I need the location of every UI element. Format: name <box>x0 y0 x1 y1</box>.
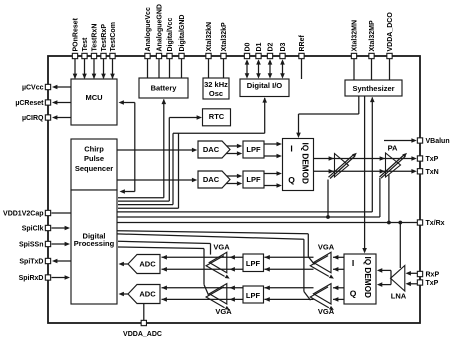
wire LNA output to IQ demodulator (lower) <box>382 284 392 286</box>
wire IQ demodulator Q output to right VGA (upper) <box>333 287 344 289</box>
svg-text:DigitalVcc: DigitalVcc <box>167 18 174 52</box>
pin DigitalGND (top) <box>179 53 184 58</box>
bus line to right VGA row2 control <box>117 234 304 239</box>
wire LPF to IQ modulator Q inputs <box>264 173 277 175</box>
svg-text:LPF: LPF <box>246 175 261 184</box>
wire data pin x=282.5 to Digital I/O (bidirectional) <box>282 61 284 75</box>
svg-text:D0: D0 <box>245 42 252 51</box>
svg-text:Processing: Processing <box>74 239 115 248</box>
svg-text:LPF: LPF <box>246 145 261 154</box>
wire RX row1 upper: right VGA to LPF <box>264 256 313 258</box>
wire pin x=371.5 to Synthesizer <box>371 59 373 80</box>
svg-text:RRef: RRef <box>299 34 306 51</box>
block 32 kHz Osc <box>203 78 229 99</box>
pin D1 (top) <box>256 53 261 58</box>
svg-text:RxP: RxP <box>426 272 440 279</box>
wire TxP pin to LNA <box>410 283 418 285</box>
pin Xtal32kN (top) <box>206 53 211 58</box>
wire VDD1V2Cap to Digital Processing <box>52 212 72 214</box>
svg-text:VDD1V2Cap: VDD1V2Cap <box>3 211 43 218</box>
svg-text:TestRxP: TestRxP <box>101 24 108 52</box>
wire Digital Processing to RTC <box>118 200 169 202</box>
wire supply pin x=159 to Battery <box>158 59 160 78</box>
pin POnReset (top) <box>72 53 77 58</box>
block TX LPF I <box>243 141 264 158</box>
wire DAC Q to LPF (differential pair) <box>226 175 238 177</box>
svg-text:Xtal32MP: Xtal32MP <box>369 20 376 51</box>
pin VDDA_ADC (bottom) <box>141 320 146 325</box>
wire LNA output to IQ demodulator (upper) <box>382 269 392 271</box>
bus line to right VGA row1 control <box>117 231 308 234</box>
pin VBalun (right) <box>417 138 422 143</box>
pin D2 (top) <box>267 53 272 58</box>
wire IQ demodulator I output to right VGA (lower) <box>333 268 344 270</box>
svg-text:Sequencer: Sequencer <box>75 164 113 173</box>
wire VGA gain control to left VGA row1 <box>118 241 211 243</box>
svg-text:TestCom: TestCom <box>110 22 117 51</box>
svg-text:LPF: LPF <box>246 291 261 300</box>
junction dot TX VGA control <box>326 215 330 219</box>
block IQ demodulator U-RX <box>344 254 376 304</box>
wire Synthesizer to IQ demodulator <box>364 96 366 249</box>
block ADC I (pentagon) <box>128 255 160 274</box>
svg-text:AnalogueGND: AnalogueGND <box>157 4 164 51</box>
wire RRef stub <box>301 59 303 79</box>
block Chirp Pulse Sequencer <box>71 139 117 190</box>
wire MCU to Digital Processing (bidirectional link) <box>134 103 136 192</box>
wire top test pin x=94 to MCU <box>93 59 95 78</box>
svg-text:VGA: VGA <box>215 307 232 316</box>
block DAC Q (pentagon) <box>198 171 230 188</box>
block RTC <box>203 109 231 126</box>
wire data pin x=247 to Digital I/O (bidirectional) <box>246 61 248 75</box>
wire Digital Processing bus hook 4 <box>118 207 179 209</box>
svg-text:µCIRQ: µCIRQ <box>22 115 44 122</box>
svg-text:Test: Test <box>82 37 89 52</box>
wire IQ demodulator Q output to right VGA (lower) <box>333 298 344 300</box>
svg-text:I: I <box>352 258 354 268</box>
wire DAC I to LPF (differential pair) <box>226 145 238 147</box>
svg-text:VBalun: VBalun <box>426 138 450 145</box>
wire RX row2 lower: right VGA to LPF <box>264 298 313 300</box>
block Synthesizer <box>345 80 402 96</box>
wire VGA gain control to left VGA row2 <box>118 247 204 249</box>
wire Digital Processing to Digital I/O <box>173 132 265 134</box>
wire MCU to left pin y=87 <box>57 86 71 88</box>
pin µCIRQ (left) <box>45 115 50 120</box>
wire RX row2 lower: VGA to ADC / LPF to VGA <box>162 298 244 300</box>
pin Xtal32kP (top) <box>221 53 226 58</box>
pin D0 (top) <box>244 53 249 58</box>
pin Xtal32MN (top) <box>351 53 356 58</box>
wire RX row1 upper: VGA to ADC / LPF to VGA <box>162 256 244 258</box>
pin Xtal32MP (top) <box>369 53 374 58</box>
pin DigitalVcc (top) <box>167 53 172 58</box>
pin SpiTxD (left) <box>45 258 50 263</box>
pin TxP (right) <box>417 280 422 285</box>
wire xtal32k pin x=208.5 to Osc <box>208 59 210 78</box>
svg-text:SpiTxD: SpiTxD <box>19 259 43 266</box>
pin TxN (right) <box>417 169 422 174</box>
svg-text:Synthesizer: Synthesizer <box>352 84 394 93</box>
wire PA diagonal to Tx/Rx junction <box>388 175 390 223</box>
svg-text:Q: Q <box>350 289 357 299</box>
svg-text:PA: PA <box>388 143 398 152</box>
wire Digital Processing to Battery <box>118 197 164 199</box>
wire IQ modulator output to TX VGA, PA and TxP pin <box>314 158 412 160</box>
svg-text:32 kHz: 32 kHz <box>204 80 228 89</box>
svg-text:LPF: LPF <box>246 259 261 268</box>
pin TestRxP (top) <box>101 53 106 58</box>
block MCU <box>71 79 117 125</box>
block Digital Processing <box>71 190 117 304</box>
wire Tx/Rx junction down to LNA <box>399 223 401 269</box>
bus line to PA gain control <box>117 216 380 218</box>
amplifier TX VGA (triangle with gain arrow) <box>335 154 349 178</box>
wire MCU to left pin y=102.5 <box>57 102 71 104</box>
wire top test pin x=112.5 to MCU <box>112 59 114 78</box>
junction dot on Tx/Rx line B <box>398 221 402 225</box>
svg-text:D1: D1 <box>256 42 263 51</box>
svg-text:VDDA_DCO: VDDA_DCO <box>387 12 394 52</box>
svg-text:SpiSSn: SpiSSn <box>19 242 44 249</box>
svg-text:DigitalGND: DigitalGND <box>179 15 186 52</box>
svg-text:SpiRxD: SpiRxD <box>19 275 44 282</box>
junction dot on Tx/Rx line A <box>387 221 391 225</box>
svg-text:D2: D2 <box>268 42 275 51</box>
svg-text:SpiClk: SpiClk <box>22 226 44 233</box>
svg-text:ADC: ADC <box>139 260 156 269</box>
block Digital I/O <box>240 79 289 97</box>
svg-text:Chirp: Chirp <box>84 144 104 153</box>
pin SpiRxD (left) <box>45 275 50 280</box>
svg-text:VDDA_ADC: VDDA_ADC <box>123 331 162 338</box>
svg-text:D3: D3 <box>280 42 287 51</box>
wire RxP pin to LNA <box>410 272 418 274</box>
pin µCReset (left) <box>45 100 50 105</box>
wire pin x=389.5 to Synthesizer <box>389 59 391 80</box>
svg-text:TxN: TxN <box>426 169 439 176</box>
svg-text:ADC: ADC <box>139 290 156 299</box>
svg-text:VGA: VGA <box>318 307 335 316</box>
wire top test pin x=103.5 to MCU <box>103 59 105 78</box>
wire top test pin x=84.5 to MCU <box>84 59 86 78</box>
bus line to Synthesizer <box>117 211 372 213</box>
pin D3 (top) <box>280 53 285 58</box>
svg-text:µCVcc: µCVcc <box>22 85 44 92</box>
wire xtal32k pin x=223.5 to Osc <box>223 59 225 78</box>
wire LNA tip connector <box>390 270 392 284</box>
wire MCU to left pin y=117.5 <box>57 117 71 119</box>
pin SpiClk (left) <box>45 225 50 230</box>
pin RxP (right) <box>417 271 422 276</box>
wire pin x=354 to Synthesizer <box>353 59 355 80</box>
svg-text:TestRxN: TestRxN <box>92 24 99 52</box>
wire Tx/Rx switch control line <box>117 222 417 224</box>
pin TestRxN (top) <box>91 53 96 58</box>
svg-text:AnalogueVcc: AnalogueVcc <box>145 7 152 51</box>
pin Test (top) <box>82 53 87 58</box>
svg-text:POnReset: POnReset <box>73 17 80 51</box>
block RX LPF Q <box>243 286 264 303</box>
svg-text:IQ DEMOD: IQ DEMOD <box>363 257 372 298</box>
svg-text:VGA: VGA <box>213 243 230 252</box>
chip outline border <box>48 56 420 323</box>
svg-text:VGA: VGA <box>318 243 335 252</box>
svg-text:TxP: TxP <box>426 156 439 163</box>
amplifier VGA left row2 <box>209 284 227 304</box>
block RX LPF I <box>243 254 264 272</box>
wire LPF to IQ modulator I inputs <box>264 143 277 145</box>
wire ADC Q to Digital Processing <box>123 293 128 295</box>
wire SpiTxD out of Digital Processing <box>57 260 71 262</box>
svg-text:LNA: LNA <box>391 291 407 300</box>
wire RX row2 upper: VGA to ADC / LPF to VGA <box>162 287 244 289</box>
wire RX row2 upper: right VGA to LPF <box>264 287 313 289</box>
pin VDD1V2Cap (left) <box>45 210 50 215</box>
svg-text:Xtal32kN: Xtal32kN <box>206 22 213 52</box>
amplifier LNA (triangle) <box>391 266 405 292</box>
pin µCVcc (left) <box>45 84 50 89</box>
svg-text:Battery: Battery <box>151 83 178 92</box>
pin AnalogueVcc (top) <box>145 53 150 58</box>
svg-text:DAC: DAC <box>203 175 220 184</box>
wire SpiRxD into Digital Processing <box>52 277 66 279</box>
svg-text:Xtal32MN: Xtal32MN <box>352 20 359 52</box>
svg-text:Q: Q <box>288 175 295 185</box>
wire supply pin x=181.5 to Battery <box>181 59 183 78</box>
svg-text:Pulse: Pulse <box>84 154 104 163</box>
wire supply pin x=147.5 to Battery <box>147 59 149 78</box>
wire Synthesizer control from Digital Processing bus <box>371 98 373 212</box>
svg-text:DAC: DAC <box>203 145 220 154</box>
block TX LPF Q <box>243 171 264 188</box>
svg-text:MCU: MCU <box>85 93 102 102</box>
wire RX row1 lower: right VGA to LPF <box>264 268 313 270</box>
wire PA to VBalun pin <box>384 140 412 142</box>
svg-text:TxP: TxP <box>426 280 439 287</box>
wire TX VGA gain control drop <box>327 180 329 218</box>
amplifier VGA right row2 <box>314 284 332 304</box>
pin AnalogueGND (top) <box>156 53 161 58</box>
svg-text:Tx/Rx: Tx/Rx <box>426 220 445 227</box>
svg-text:IQ DEMOD: IQ DEMOD <box>301 143 310 184</box>
wire IQ demodulator I output to right VGA (upper) <box>333 256 344 258</box>
block ADC Q (pentagon) <box>128 285 160 304</box>
pin Tx/Rx (right) <box>417 220 422 225</box>
amplifier VGA right row1 <box>314 252 332 272</box>
block DAC I (pentagon) <box>198 141 230 158</box>
wire IQ modulator output to TX VGA, PA and TxN pin <box>314 170 412 172</box>
wire SpiSSn into Digital Processing <box>52 243 66 245</box>
wire top test pin x=75 to MCU <box>74 59 76 78</box>
pin TxP (right) <box>417 156 422 161</box>
svg-text:I: I <box>290 144 292 154</box>
wire Digital Processing bus hook 3 <box>118 204 173 206</box>
block IQ modulator U-TX <box>283 139 314 191</box>
wire data pin x=258.5 to Digital I/O (bidirectional) <box>258 61 260 75</box>
wire RX row1 lower: VGA to ADC / LPF to VGA <box>162 268 244 270</box>
pin SpiSSn (left) <box>45 241 50 246</box>
pin RRef (top) <box>299 53 304 58</box>
wire Chirp Pulse Sequencer to DAC Q <box>117 179 193 181</box>
wire supply pin x=169.5 to Battery <box>169 59 171 78</box>
svg-text:Osc: Osc <box>209 89 223 98</box>
wire ADC I to Digital Processing <box>123 263 128 265</box>
svg-text:Digital I/O: Digital I/O <box>247 81 283 90</box>
block Battery <box>139 78 188 98</box>
wire Chirp Pulse Sequencer to DAC I <box>117 149 193 151</box>
pin TestCom (top) <box>110 53 115 58</box>
amplifier VGA left row1 <box>209 252 227 272</box>
svg-text:Xtal32kP: Xtal32kP <box>221 22 228 52</box>
wire ADC Q to VDDA_ADC pin <box>143 304 145 321</box>
wire data pin x=270 to Digital I/O (bidirectional) <box>269 61 271 75</box>
svg-text:RTC: RTC <box>209 112 225 121</box>
wire Synthesizer to IQ modulator <box>358 96 360 114</box>
wire SpiClk into Digital Processing <box>52 227 66 229</box>
pin VDDA_DCO (top) <box>387 53 392 58</box>
svg-text:µCReset: µCReset <box>15 100 44 107</box>
